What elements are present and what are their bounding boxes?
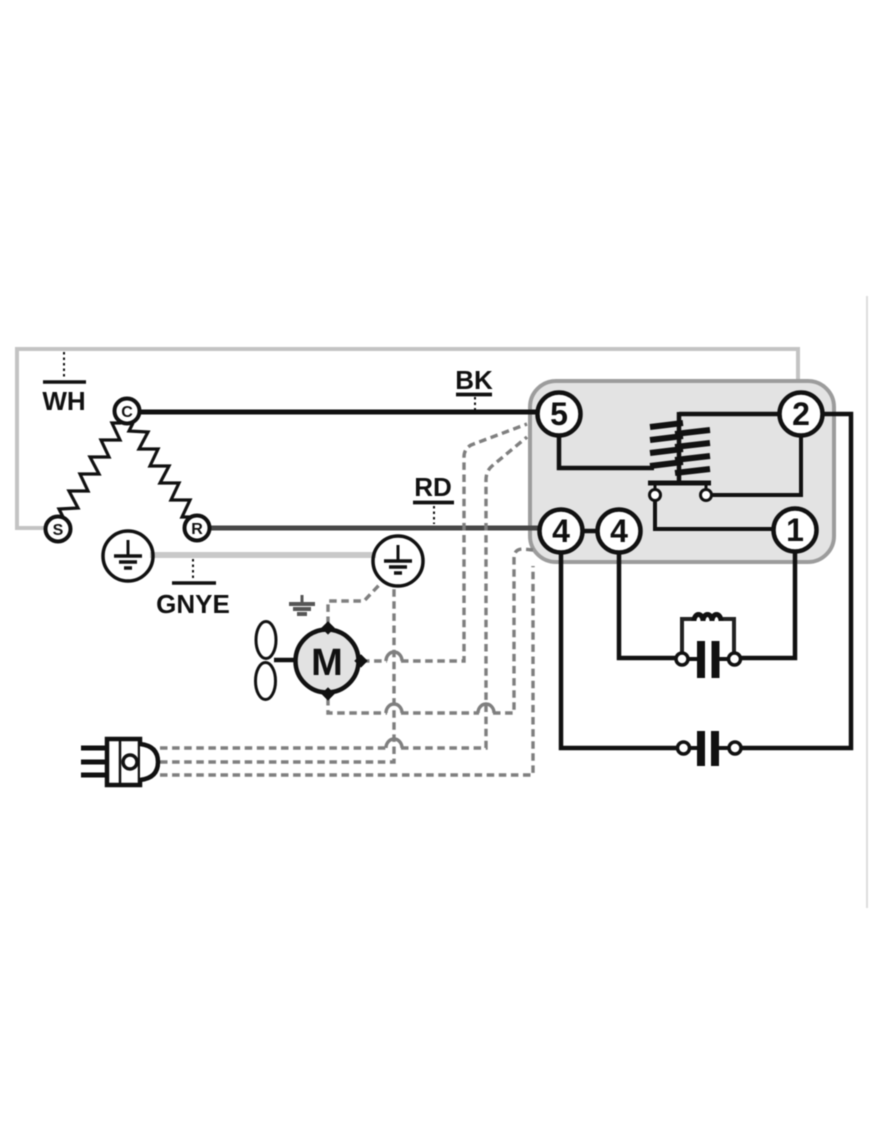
dashed wire: fan motor right pin to terminal 5 (with hop)	[362, 659, 387, 662]
dashed wire: plug line to terminal 5 (with hop)	[160, 746, 387, 749]
label BK	[455, 365, 493, 410]
svg-text:S: S	[53, 522, 64, 539]
svg-text:BK: BK	[455, 365, 493, 395]
label GNYE	[156, 559, 230, 619]
relay contact right	[701, 485, 712, 501]
wire BK (black, C to terminal 5)	[139, 410, 542, 415]
svg-text:5: 5	[550, 396, 568, 432]
wire left contact to terminal 1	[655, 501, 775, 529]
svg-text:M: M	[311, 642, 343, 684]
start capacitor	[678, 731, 742, 766]
chassis ground symbol (fan motor)	[289, 595, 315, 614]
fan motor pin bottom	[321, 687, 334, 700]
dashed wire: fan motor top pin to earth terminal	[328, 583, 381, 624]
fan motor pin top	[321, 621, 334, 634]
svg-text:RD: RD	[414, 472, 452, 502]
svg-text:C: C	[121, 404, 133, 421]
wire terminal 5 to coil	[559, 434, 654, 468]
label WH	[42, 352, 86, 416]
fan motor pin right	[354, 654, 367, 667]
terminal 4a	[540, 510, 583, 553]
dashed wire: plug neutral to relay casing	[160, 566, 533, 775]
dashed wire: plug earth to right earth terminal	[160, 587, 394, 762]
terminal 4b	[598, 510, 641, 553]
relay box (start relay housing)	[530, 381, 834, 562]
label RD	[413, 472, 454, 524]
wire terminal 4a to start capacitor	[561, 551, 678, 748]
terminal 1	[774, 509, 817, 552]
wire terminal 2 to start capacitor	[742, 414, 851, 748]
svg-text:1: 1	[786, 512, 804, 548]
fan motor M	[296, 630, 359, 693]
earth terminal right (protective earth symbol in circle)	[373, 536, 423, 586]
run capacitor with bleed resistor	[676, 615, 741, 678]
terminal S	[46, 517, 71, 542]
earth terminal left (protective earth symbol in circle)	[103, 531, 153, 581]
wire GNYE (gray, between earth terminals)	[150, 552, 376, 558]
terminal 5	[538, 393, 581, 436]
terminal C	[115, 399, 140, 424]
fan blades	[256, 622, 277, 700]
wire WH mains (gray frame from S around top to terminal 2)	[17, 349, 798, 528]
winding C-S (compressor start winding zigzag)	[59, 423, 121, 517]
terminal 2	[780, 393, 823, 436]
svg-text:2: 2	[792, 396, 810, 432]
svg-text:R: R	[191, 521, 203, 538]
wire hop junctions	[386, 652, 494, 748]
wire coil to terminal 2	[679, 412, 780, 417]
wire RD (dark, R to terminal 4)	[207, 526, 544, 531]
svg-text:4: 4	[552, 513, 570, 549]
relay switch armature	[648, 481, 711, 486]
link between terminals 4a and 4b	[580, 529, 600, 534]
mains plug	[81, 739, 158, 785]
wire terminal 4b to run capacitor	[619, 551, 677, 658]
terminal R	[185, 516, 210, 541]
winding C-R (compressor run winding zigzag)	[129, 423, 191, 517]
relay contact left	[650, 485, 661, 501]
svg-text:WH: WH	[42, 386, 85, 416]
wire terminal 1 to run capacitor	[741, 550, 795, 658]
dashed wire: fan motor bottom pin to relay (with hops)	[328, 698, 387, 713]
svg-text:4: 4	[610, 513, 628, 549]
fan shaft	[274, 658, 296, 663]
relay coil	[650, 412, 710, 481]
svg-text:GNYE: GNYE	[156, 589, 230, 619]
wire right contact to terminal 2	[712, 434, 801, 495]
